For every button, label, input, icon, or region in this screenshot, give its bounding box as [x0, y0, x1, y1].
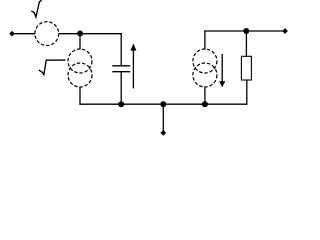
- current arrow (down) beside I2: [221, 54, 223, 82]
- terminal P3 (bottom): [160, 130, 166, 136]
- sqrt symbol of I1: [39, 60, 66, 75]
- voltage arrow u (up) beside capacitor: [132, 50, 134, 89]
- wire resistor R1 to bottom rail: [246, 80, 248, 105]
- node A junction dot: [77, 31, 83, 37]
- top right wire to terminal P2: [204, 30, 282, 32]
- resistor R1 (rectangle): [241, 56, 251, 80]
- wire P1 to noise voltage source: [15, 33, 36, 35]
- capacitor C1 top plate: [112, 65, 130, 67]
- wire node A down to noise current source I1: [79, 34, 81, 50]
- bottom rail wire: [79, 103, 247, 105]
- terminal P2 (right output): [282, 28, 288, 34]
- junction dot current source I2 / bottom rail: [202, 101, 208, 107]
- wire capacitor C1 to bottom rail: [120, 72, 122, 104]
- wire I2 to bottom rail: [204, 87, 206, 104]
- junction dot capacitor / bottom rail: [118, 101, 124, 107]
- capacitor C1 bottom plate: [112, 71, 130, 73]
- wire corner node A to capacitor C1: [120, 33, 122, 66]
- wire down to terminal P3: [162, 104, 164, 130]
- sqrt symbol of V1 (clipped at top): [31, 0, 42, 17]
- junction dot resistor R1 / top wire: [243, 28, 249, 34]
- junction dot ground node / bottom rail: [160, 101, 166, 107]
- wire V1 to node A: [59, 33, 122, 35]
- wire I1 to bottom rail: [79, 87, 81, 105]
- wire I2 up to top-right corner: [204, 31, 206, 50]
- noise current source I1 (two dashed interlocked circles): [68, 49, 92, 87]
- wire top to resistor R1: [245, 31, 247, 56]
- terminal P1 (left input): [9, 31, 15, 37]
- controlled current source I2 (two dashed interlocked circles): [193, 49, 217, 87]
- noise voltage source V1 (dashed circle): [35, 22, 59, 46]
